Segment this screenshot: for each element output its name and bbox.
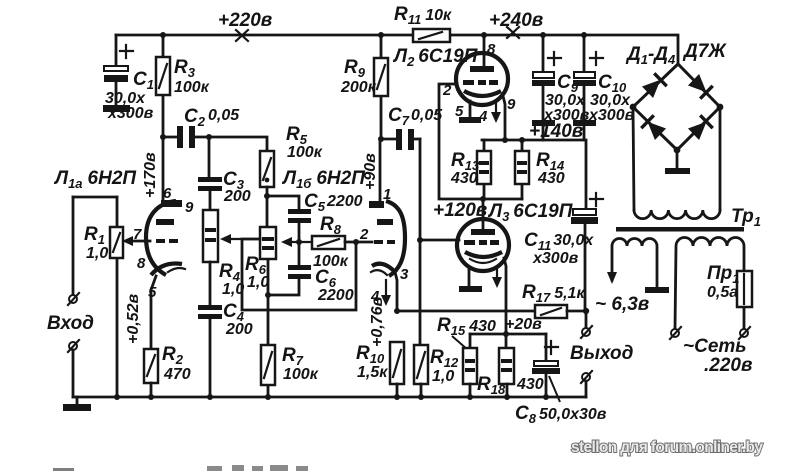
svg-text:+240в: +240в: [489, 10, 543, 31]
wire R4 wiper arrow: [220, 234, 260, 244]
capacitor C8: [515, 334, 607, 426]
svg-text:+170в: +170в: [142, 152, 159, 198]
svg-text:430: 430: [537, 170, 565, 187]
svg-text:R175,1к: R175,1к: [522, 282, 585, 305]
svg-text:+0,76в: +0,76в: [369, 297, 386, 347]
capacitor C10: [573, 35, 635, 140]
node junction R9/C7/plate: [378, 136, 384, 142]
wire node +140v: [482, 140, 586, 209]
svg-text:100к: 100к: [287, 144, 323, 161]
svg-text:stellon для forum.onliner.by: stellon для forum.onliner.by: [571, 439, 763, 456]
svg-text:Вход: Вход: [47, 313, 94, 334]
svg-text:4: 4: [478, 108, 488, 125]
fuse Pr1: [707, 263, 752, 307]
node junction L3 grid: [417, 237, 423, 243]
wire top +220v rail: [116, 35, 678, 64]
svg-text:~Сеть: ~Сеть: [683, 336, 747, 357]
svg-text:9: 9: [507, 96, 516, 113]
bottom cropped caption fragments: [53, 468, 74, 471]
svg-text:2200: 2200: [317, 287, 354, 304]
svg-text:+20в: +20в: [505, 316, 542, 333]
wire +20v node: [470, 333, 546, 336]
wire feedback loop around C5/C6: [242, 239, 356, 310]
resistor R13: [450, 140, 491, 199]
svg-text:Л36С19П: Л36С19П: [487, 201, 573, 224]
ground bridge center: [676, 150, 679, 168]
svg-text:1,0: 1,0: [86, 245, 108, 262]
output terminal bottom: [581, 371, 592, 397]
wire C2 to R5: [209, 137, 267, 151]
resistor R6: [245, 196, 276, 295]
svg-text:100к: 100к: [283, 366, 319, 383]
svg-text:х300в: х300в: [107, 105, 154, 122]
capacitor C4: [198, 301, 253, 397]
svg-text:8: 8: [487, 41, 496, 58]
input terminal bottom: [68, 340, 79, 397]
capacitor C3: [198, 137, 251, 210]
svg-text:0,5а: 0,5а: [707, 284, 738, 301]
svg-text:1,5к: 1,5к: [357, 364, 388, 381]
resistor R7: [261, 295, 319, 397]
input terminal top: [68, 293, 79, 305]
capacitor C1: [103, 35, 154, 122]
capacitor C5: [267, 191, 363, 265]
node junction R3/C2/plate: [160, 134, 166, 140]
winding mains: [675, 238, 744, 330]
svg-text:+220в: +220в: [218, 10, 272, 31]
wire C7 to L3 grid and R12: [419, 139, 422, 345]
node rail junction R3: [160, 32, 166, 38]
svg-text:9: 9: [185, 199, 194, 216]
diode upper-left: [641, 73, 666, 98]
svg-text:200: 200: [223, 188, 251, 205]
svg-text:1: 1: [383, 186, 391, 203]
resistor R3: [156, 35, 210, 137]
svg-text:100к: 100к: [174, 79, 210, 96]
svg-text:2: 2: [359, 226, 369, 243]
resistor R5: [260, 124, 323, 196]
node rail junction R9: [378, 32, 384, 38]
node junction R6/C6: [265, 292, 271, 298]
break mark x on rail right: [507, 27, 519, 38]
resistor R12: [414, 345, 459, 397]
diode lower-left: [641, 115, 666, 140]
resistor R8: [281, 214, 372, 270]
diode bridge D1-D4: [630, 64, 724, 174]
mains terminal left: [670, 327, 681, 339]
svg-text:8: 8: [137, 255, 146, 272]
svg-text:1,0: 1,0: [432, 368, 454, 385]
resistor R15: [463, 334, 477, 397]
svg-text:7: 7: [133, 226, 142, 243]
svg-text:200: 200: [225, 321, 253, 338]
svg-text:Л1б6Н2П: Л1б6Н2П: [281, 168, 365, 191]
capacitor C11: [524, 193, 603, 311]
svg-text:+90в: +90в: [362, 153, 379, 190]
node junction R5/R6/C5: [264, 193, 270, 199]
svg-text:6: 6: [163, 185, 172, 202]
triode L1a: [122, 137, 194, 349]
diode lower-right: [687, 115, 712, 140]
svg-text:200к: 200к: [340, 79, 377, 96]
resistor R17: [522, 282, 586, 318]
node rail junction C10: [581, 32, 587, 38]
potentiometer R1: [73, 197, 123, 397]
break mark x on rail left: [236, 30, 248, 41]
capacitor C6: [268, 265, 354, 304]
winding 6.3v: [595, 239, 669, 315]
diode upper-right: [687, 73, 712, 98]
svg-text:100к: 100к: [313, 253, 349, 270]
svg-text:2: 2: [442, 82, 452, 99]
svg-text:470: 470: [163, 366, 191, 383]
transformer core: [616, 227, 744, 232]
resistor R14: [515, 140, 565, 199]
capacitor C7: [381, 105, 443, 150]
resistor R18: [477, 334, 544, 397]
node rail junction L2 plate: [481, 32, 487, 38]
capacitor C2: [163, 106, 240, 148]
node junction R8/grid: [353, 239, 359, 245]
triode L2: [439, 35, 522, 199]
svg-text:Л1а6Н2П: Л1а6Н2П: [53, 168, 136, 191]
svg-text:~ 6,3в: ~ 6,3в: [595, 294, 649, 315]
wire feedback line: [397, 310, 535, 313]
output terminal top: [581, 311, 592, 338]
svg-text:х300в: х300в: [588, 107, 635, 124]
node rail junction C9: [540, 32, 546, 38]
mains terminal right: [739, 327, 750, 339]
svg-text:5: 5: [455, 103, 464, 120]
transformer Tr1 primary HV winding: [633, 107, 761, 229]
triode L1b: [359, 139, 409, 311]
svg-text:3: 3: [400, 266, 409, 283]
resistor R11: [394, 4, 452, 42]
svg-text:430: 430: [450, 170, 478, 187]
node junction L2 grid / L3 plate: [480, 196, 486, 202]
svg-text:430: 430: [516, 376, 544, 393]
svg-text:х300в: х300в: [532, 250, 579, 267]
svg-text:+0,52в: +0,52в: [125, 294, 142, 344]
resistor R2: [144, 344, 191, 397]
svg-text:5: 5: [148, 284, 157, 301]
svg-text:.220в: .220в: [704, 355, 752, 376]
svg-text:Выход: Выход: [570, 343, 634, 364]
resistor R10: [356, 342, 404, 397]
ground symbol bottom left: [63, 397, 91, 411]
svg-text:Д7Ж: Д7Ж: [682, 41, 727, 62]
node junction output: [583, 308, 589, 314]
svg-text:1,0: 1,0: [247, 274, 269, 291]
resistor R4: [203, 210, 244, 305]
wire bottom ground rail: [73, 396, 586, 399]
resistor R9: [340, 35, 388, 139]
triode L3: [457, 199, 509, 334]
node junction C2/C3: [206, 134, 212, 140]
capacitor C9: [532, 35, 590, 140]
